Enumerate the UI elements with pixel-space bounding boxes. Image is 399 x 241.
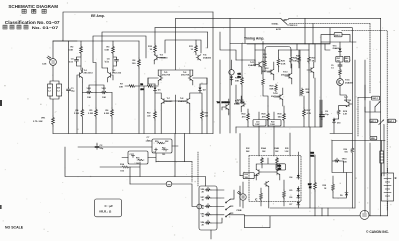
dashed box IC1 xyxy=(249,156,301,202)
wire R5 xyxy=(95,93,97,134)
wire meter loop xyxy=(130,184,197,207)
diode D2 xyxy=(199,86,202,92)
switch SW1 arrow xyxy=(382,120,383,121)
battery cells xyxy=(384,179,391,197)
wire R23 leads xyxy=(264,50,266,72)
svg-text:C11: C11 xyxy=(238,74,241,76)
capacitor C3 xyxy=(131,154,134,158)
svg-text:5.6K: 5.6K xyxy=(69,50,74,52)
svg-text:R16: R16 xyxy=(155,141,158,143)
svg-text:MAN: MAN xyxy=(283,19,288,22)
wire VR10 column xyxy=(332,141,352,173)
photocell CdS xyxy=(47,56,56,65)
wire R7 leads xyxy=(125,85,158,87)
svg-text:10K: 10K xyxy=(119,87,123,89)
transistor Tr3 xyxy=(154,55,159,60)
resistor R11 xyxy=(195,44,198,54)
capacitor C2 xyxy=(95,145,99,150)
transistor Tr1 xyxy=(78,72,83,77)
potentiometer VR2 xyxy=(86,90,92,94)
wire dashed VR feed xyxy=(197,152,199,186)
diode D9 xyxy=(345,191,348,197)
transistor Tr20 xyxy=(264,181,269,186)
svg-text:10K: 10K xyxy=(102,97,106,99)
potentiometer VR10 xyxy=(334,158,340,162)
svg-text:10K: 10K xyxy=(87,97,91,99)
transistor Tr2 xyxy=(108,72,113,77)
wire R32 link xyxy=(240,175,258,177)
wire Tr2 leads xyxy=(53,41,108,82)
svg-text:5.6K: 5.6K xyxy=(343,161,348,163)
boxed label R32 xyxy=(243,173,254,179)
resistor R8 xyxy=(138,58,141,68)
svg-text:Tr14: Tr14 xyxy=(273,92,278,95)
transistor Tr10 xyxy=(241,101,246,106)
network box R16 C4 R17 xyxy=(152,139,172,153)
svg-text:C : μF: C : μF xyxy=(105,204,114,208)
scan mark left lower xyxy=(0,205,2,209)
subtitle kanji row xyxy=(3,25,28,29)
svg-text:No. 01~07: No. 01~07 xyxy=(32,25,60,30)
svg-text:IC: IC xyxy=(255,199,258,202)
svg-text:2SA490: 2SA490 xyxy=(333,47,340,50)
resistor R5 xyxy=(95,108,98,118)
resistor R14 xyxy=(121,166,130,168)
resistor R3 xyxy=(112,45,115,55)
switch SW2-1 blade xyxy=(375,102,380,107)
meter M1 xyxy=(166,181,172,187)
svg-text:2SC1313: 2SC1313 xyxy=(112,73,122,75)
svg-text:VR10: VR10 xyxy=(342,159,347,161)
boxed label C10 xyxy=(253,120,266,127)
svg-text:R33: R33 xyxy=(271,121,274,123)
wire C2 stub xyxy=(96,143,98,145)
svg-text:SW1-3: SW1-3 xyxy=(388,121,394,123)
wire Tr11 xyxy=(255,60,265,74)
wire SW5 rail xyxy=(332,140,385,142)
network box C3 R15 xyxy=(128,151,148,164)
wire CWB links xyxy=(228,186,270,228)
wire SW2-1 links xyxy=(358,85,381,112)
wire D10 down xyxy=(330,124,352,134)
wire dashed link SW1 xyxy=(357,98,359,138)
boxed label R36 xyxy=(276,164,286,170)
svg-text:2SC1313: 2SC1313 xyxy=(222,102,230,104)
svg-text:EE Amp.: EE Amp. xyxy=(91,14,105,18)
svg-text:2SA561: 2SA561 xyxy=(178,100,187,103)
switch CWB blade 3 xyxy=(225,213,230,217)
wire R14 row xyxy=(100,162,140,184)
svg-text:2.2M: 2.2M xyxy=(88,113,93,115)
wire EE amp mid rails xyxy=(53,40,139,42)
wire right columns long xyxy=(278,24,330,128)
solenoid L1 xyxy=(380,151,384,163)
svg-text:470K: 470K xyxy=(234,103,240,106)
wire R10 col xyxy=(154,28,156,55)
svg-text:Tr16: Tr16 xyxy=(345,80,350,82)
transistor Tr13 xyxy=(287,73,292,78)
svg-text:R33: R33 xyxy=(311,153,314,155)
wire col 175 207 xyxy=(148,78,207,134)
svg-text:SW1-1: SW1-1 xyxy=(370,121,376,123)
svg-text:1K: 1K xyxy=(312,61,315,63)
svg-text:2SC708: 2SC708 xyxy=(344,100,351,102)
svg-text:Tr11: Tr11 xyxy=(250,62,255,64)
svg-text:2SA490: 2SA490 xyxy=(203,56,212,59)
wire IC feeds xyxy=(259,112,290,156)
svg-text:1-2: 1-2 xyxy=(57,91,60,93)
wire IC internals xyxy=(261,180,284,208)
wire timing bottom rail xyxy=(236,60,263,133)
wire R3 column xyxy=(113,41,117,80)
resistor R37 xyxy=(314,181,317,191)
svg-text:708: 708 xyxy=(337,61,340,63)
resistor R4 xyxy=(81,108,84,118)
svg-text:2SC1000: 2SC1000 xyxy=(262,71,272,73)
resistor R38 xyxy=(332,183,335,192)
switch SW1 blade xyxy=(379,120,384,125)
svg-text:Tr17: Tr17 xyxy=(344,97,348,99)
photocell CdS2 xyxy=(237,191,246,200)
svg-text:R32: R32 xyxy=(245,174,248,176)
transistor Tr4 xyxy=(196,55,201,60)
wire R35 leads xyxy=(351,134,353,209)
potentiometer VR1 xyxy=(52,116,55,126)
resistor R39 xyxy=(339,69,342,77)
svg-text:2SA490: 2SA490 xyxy=(248,64,257,67)
resistor RCN xyxy=(337,109,340,116)
svg-text:R17: R17 xyxy=(162,148,165,150)
title kanji 2 xyxy=(32,9,36,13)
svg-text:Timing Amp.: Timing Amp. xyxy=(244,37,264,41)
transistor Tr16 xyxy=(337,79,344,86)
wire Tr3 xyxy=(154,58,165,65)
switch CWB blade 2 xyxy=(225,206,230,210)
wire R11 col xyxy=(195,40,197,55)
resistor R7 xyxy=(128,85,136,88)
resistor R41 xyxy=(283,190,286,199)
capacitor C11 xyxy=(229,70,234,75)
motor M2 mark xyxy=(363,214,367,216)
capacitor C5 xyxy=(75,58,79,63)
svg-text:SW5: SW5 xyxy=(371,138,375,140)
resistor R25 xyxy=(298,56,301,64)
diode D10 xyxy=(333,118,336,124)
potentiometer VR3 xyxy=(101,90,107,94)
svg-text:2.2K: 2.2K xyxy=(343,114,348,116)
wire R2 column xyxy=(77,41,83,134)
wire box2 leads xyxy=(122,153,156,162)
svg-text:1.5: 1.5 xyxy=(331,68,334,70)
wire R6 xyxy=(111,93,113,134)
svg-text:SW 2-2: SW 2-2 xyxy=(290,25,298,27)
transistor Tr5 xyxy=(158,75,163,80)
resistor R13 xyxy=(201,110,204,120)
diode D11 xyxy=(339,47,342,53)
potentiometer VR7 xyxy=(205,195,211,199)
wire upper stub x355 xyxy=(355,60,365,213)
switch SW1-3 box xyxy=(388,119,396,123)
transistor Tr14 xyxy=(278,94,283,99)
wire VR outputs xyxy=(211,190,224,239)
switch SW5 box xyxy=(370,136,377,140)
wire EE-timing links xyxy=(220,32,236,134)
svg-text:56K: 56K xyxy=(270,89,274,91)
wire R32 feed column xyxy=(240,134,243,209)
svg-text:SW 3: SW 3 xyxy=(335,35,341,37)
label CdS2 xyxy=(0,0,1,1)
svg-text:2SC1313: 2SC1313 xyxy=(84,73,94,75)
switch SW2-1 box xyxy=(372,96,380,100)
svg-text:50μ: 50μ xyxy=(100,148,104,150)
wire lower-left rails xyxy=(65,147,206,186)
svg-text:SW: SW xyxy=(48,88,51,90)
svg-text:R36: R36 xyxy=(344,149,347,151)
wire left input top xyxy=(53,41,77,59)
transistor Tr8 xyxy=(185,98,190,103)
svg-text:R12: R12 xyxy=(147,113,150,115)
resistor R30 xyxy=(283,112,286,122)
wire D3 leads xyxy=(231,60,233,85)
capacitor C8 xyxy=(320,112,325,119)
transistor Tr19 xyxy=(275,169,280,174)
wire Tr9 leads xyxy=(222,99,229,115)
transistor Tr11 xyxy=(257,62,262,67)
wire chain top xyxy=(339,42,341,79)
svg-text:39K: 39K xyxy=(235,81,239,83)
switch CWB blade 1 xyxy=(225,199,230,203)
svg-text:Tr13: Tr13 xyxy=(283,72,288,74)
svg-text:47K: 47K xyxy=(262,116,266,119)
resistor R26 xyxy=(277,58,280,67)
svg-text:R38: R38 xyxy=(323,185,326,187)
wire top bus 2 xyxy=(176,18,381,216)
svg-text:100: 100 xyxy=(162,154,165,156)
wire Tr16 to Tr17 xyxy=(340,86,352,105)
wire C1 column xyxy=(68,41,70,134)
scan mark left upper xyxy=(0,100,2,106)
meter M1 mark xyxy=(168,184,170,186)
transistor Tr17 xyxy=(346,101,351,106)
svg-text:4.7K: 4.7K xyxy=(307,112,312,115)
resistor R18 xyxy=(241,76,244,86)
svg-text:100P: 100P xyxy=(255,124,260,126)
resistor R2 xyxy=(80,45,83,55)
wire bottom bus A xyxy=(270,207,355,209)
wire R12 xyxy=(144,86,155,134)
wire x213 down xyxy=(212,12,214,134)
resistor R15 xyxy=(137,159,144,161)
svg-text:2SA490: 2SA490 xyxy=(345,81,354,84)
boxed label X1 xyxy=(336,56,343,62)
battery B xyxy=(382,173,394,201)
wire collector loop xyxy=(265,47,291,62)
svg-text:2.75~10K: 2.75~10K xyxy=(33,121,43,123)
title kanji 1 xyxy=(22,9,26,13)
transistor Tr12 xyxy=(269,69,274,74)
svg-text:2SA490: 2SA490 xyxy=(160,56,169,59)
svg-text:R9: R9 xyxy=(141,84,143,86)
svg-text:© CANON INC.: © CANON INC. xyxy=(366,230,389,234)
switch SW2-1 arrow xyxy=(379,102,380,103)
diode D6 xyxy=(297,194,300,200)
resistor R31 xyxy=(301,88,304,96)
svg-text:2SC1000: 2SC1000 xyxy=(271,96,281,98)
wire diode column xyxy=(297,152,299,208)
switch SW1-2 contact b xyxy=(57,84,62,96)
svg-text:100: 100 xyxy=(141,89,144,91)
wire Tr17 emitter xyxy=(339,105,347,109)
wire timing inner rails xyxy=(236,44,330,96)
svg-text:2SC708: 2SC708 xyxy=(162,75,171,77)
wire VR row xyxy=(82,82,112,93)
wire right vertical SW column xyxy=(369,24,371,94)
transistor Tr16 inner xyxy=(338,80,342,84)
resistor R40 xyxy=(260,192,263,201)
resistor R16 xyxy=(157,142,165,144)
svg-text:8.2M: 8.2M xyxy=(104,113,109,115)
svg-text:CWB: CWB xyxy=(236,210,242,212)
svg-text:5.6K: 5.6K xyxy=(281,63,286,65)
svg-text:NO SCALE: NO SCALE xyxy=(5,226,24,230)
wire switch to VR1 xyxy=(50,96,59,116)
svg-text:2.2K: 2.2K xyxy=(263,57,268,59)
potentiometer VR8 xyxy=(205,187,211,191)
resistor R10 xyxy=(154,44,157,54)
wire timing box top xyxy=(230,18,330,43)
svg-text:Tr12: Tr12 xyxy=(264,68,269,70)
wire R38 xyxy=(332,176,334,198)
resistor R34B xyxy=(276,157,279,164)
svg-text:2SC708: 2SC708 xyxy=(181,75,190,77)
svg-text:10K: 10K xyxy=(293,61,297,63)
svg-text:R15: R15 xyxy=(136,158,139,160)
wire SW1 links xyxy=(377,121,397,176)
wire top bus 3 xyxy=(155,28,352,134)
svg-text:10μ: 10μ xyxy=(325,114,329,116)
resistor R29 xyxy=(267,112,270,122)
wire Tr15 leads xyxy=(307,62,314,78)
resistor R23 xyxy=(264,60,267,68)
wire resistor row tops xyxy=(278,44,309,72)
svg-text:RCN: RCN xyxy=(343,111,348,113)
svg-text:SCHEMATIC DIAGRAM: SCHEMATIC DIAGRAM xyxy=(8,4,58,9)
transistor Tr7 xyxy=(161,98,166,103)
wire x176 x186 lower stubs xyxy=(156,134,192,177)
wire R18 xyxy=(241,44,243,100)
wire Tr14 xyxy=(274,88,283,106)
svg-text:VR,R : Ω: VR,R : Ω xyxy=(99,209,112,213)
potentiometer VR5 xyxy=(205,212,211,216)
legend box xyxy=(95,199,122,217)
svg-text:D9: D9 xyxy=(340,195,342,197)
svg-text:SIGNAL: SIGNAL xyxy=(272,22,280,25)
resistor R21 xyxy=(308,56,311,64)
wire mid column rail xyxy=(138,41,140,134)
solenoid L1 rungs xyxy=(380,154,384,160)
resistor R27 xyxy=(303,108,306,118)
svg-text:SW2-1: SW2-1 xyxy=(372,98,378,100)
wire dashed mid bus xyxy=(321,35,356,42)
svg-text:10μ: 10μ xyxy=(71,91,75,93)
resistor R35 xyxy=(351,147,354,154)
resistor R9 xyxy=(146,85,154,88)
wire Tr1 collector-emitter xyxy=(81,68,83,82)
svg-text:R34A: R34A xyxy=(261,147,266,150)
wire battery leads xyxy=(387,168,389,216)
wire bias box xyxy=(165,40,201,53)
svg-text:C10: C10 xyxy=(256,121,259,123)
title kanji 3 xyxy=(42,9,46,13)
wire box1 leads xyxy=(146,141,178,146)
boxed label R33 xyxy=(268,120,281,127)
wire dashed bus right xyxy=(290,23,371,25)
svg-text:2SA561: 2SA561 xyxy=(165,100,174,103)
connector node xyxy=(197,204,202,209)
diode D5 xyxy=(297,187,300,193)
motor M2 xyxy=(360,210,369,219)
svg-text:C3: C3 xyxy=(130,154,132,156)
transistor Tr18 xyxy=(256,169,261,174)
wire dashed mid vertical xyxy=(191,162,193,182)
wire RCN xyxy=(334,116,339,120)
wire R13 xyxy=(200,93,202,134)
wire bottom bus B xyxy=(245,215,388,217)
wire solenoid leads xyxy=(381,141,383,177)
wire right stub columns xyxy=(310,127,328,216)
wire CdS to switch xyxy=(50,66,59,85)
svg-text:CdS: CdS xyxy=(42,64,47,66)
switch SW2-2 blade xyxy=(281,19,287,25)
switch SW1-1 box xyxy=(370,119,378,123)
wire timing mid columns xyxy=(263,72,268,106)
svg-text:910: 910 xyxy=(345,152,348,154)
svg-text:5.6K: 5.6K xyxy=(105,50,110,52)
resistor R20 xyxy=(275,84,278,92)
transistor Tr9 xyxy=(224,104,229,109)
wire bottom bus left section xyxy=(53,133,213,135)
boxed label X2 xyxy=(344,56,350,62)
resistor R28 xyxy=(262,78,265,86)
wire timing amp outline xyxy=(229,44,231,134)
svg-text:R32: R32 xyxy=(246,148,249,150)
wire top bus 1 xyxy=(63,12,213,41)
svg-text:AUTO: AUTO xyxy=(276,28,282,31)
diode D1 xyxy=(154,86,157,92)
transistor Tr6 xyxy=(188,75,193,80)
svg-text:100: 100 xyxy=(345,61,348,63)
wire SW column lower xyxy=(369,101,371,216)
svg-text:2SC1000: 2SC1000 xyxy=(281,75,291,77)
transistor Tr15 xyxy=(309,67,314,72)
potentiometer VR6 xyxy=(205,204,211,208)
wire Tr10 col xyxy=(236,85,241,112)
svg-text:R35: R35 xyxy=(285,148,288,150)
potentiometer VR4 xyxy=(205,220,211,224)
svg-text:B: B xyxy=(395,176,397,180)
wire R34 stubs xyxy=(262,164,277,168)
svg-text:100K: 100K xyxy=(270,124,275,126)
svg-text:10K: 10K xyxy=(306,92,310,94)
svg-text:220: 220 xyxy=(205,115,208,117)
wire D9 xyxy=(333,173,347,199)
diode D4 xyxy=(297,174,300,180)
svg-text:R34B: R34B xyxy=(274,147,279,150)
wire Tr12 Tr13 xyxy=(267,62,292,84)
capacitor C6 xyxy=(115,58,119,63)
wire right mid columns xyxy=(236,96,322,127)
svg-text:2.2M: 2.2M xyxy=(74,113,79,115)
